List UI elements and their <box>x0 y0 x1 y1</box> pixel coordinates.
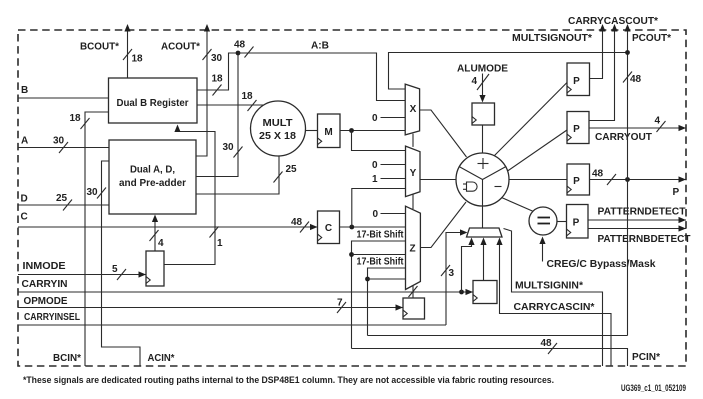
wire PCIN* input <box>352 349 628 367</box>
svg-text:D: D <box>21 194 28 205</box>
wire CARRYOUT out (4) <box>589 127 686 129</box>
register P multsign <box>567 63 590 96</box>
svg-text:A: A <box>21 136 28 147</box>
wire MULTSIGNIN* input <box>504 229 603 367</box>
svg-text:Dual A, D,: Dual A, D, <box>130 165 175 176</box>
register Dual B Register <box>109 78 198 123</box>
wire ALU to CARRYOUT register <box>508 130 568 171</box>
junction P direct tee <box>365 277 370 282</box>
svg-text:P: P <box>673 187 680 198</box>
register ALUMODE <box>472 103 495 125</box>
wire X mux select stub <box>412 134 414 147</box>
mux Z <box>406 206 421 289</box>
wire P shifted into Z mux <box>368 268 406 336</box>
register M <box>318 114 341 148</box>
plus sign <box>478 163 489 165</box>
svg-text:P: P <box>573 218 580 229</box>
wire ACIN* cascade input <box>102 161 141 366</box>
wire M output to Y mux <box>352 131 406 151</box>
wire CARRYCASCOUT* up <box>589 26 615 121</box>
svg-text:0: 0 <box>372 160 378 171</box>
minus sign <box>495 186 502 188</box>
register CARRYIN <box>473 281 497 304</box>
wire B register to multiplier (18) <box>197 104 264 106</box>
wire INMODE row <box>18 274 146 276</box>
wire CARRYIN direct to carry mux <box>462 240 472 292</box>
junction C output tee <box>349 225 354 230</box>
svg-text:30: 30 <box>223 142 235 153</box>
wire BCIN* cascade input <box>85 112 109 366</box>
svg-text:17-Bit Shift: 17-Bit Shift <box>357 230 405 241</box>
svg-text:48: 48 <box>541 338 553 349</box>
wire CARRYCASCIN* input <box>500 240 612 366</box>
wire P direct into Z mux <box>368 278 406 280</box>
wire PATTERNDETECT out <box>588 219 686 221</box>
wire OPMODE select into Z mux <box>412 286 414 299</box>
comparator pattern detect <box>502 198 534 212</box>
svg-text:48: 48 <box>630 74 642 85</box>
svg-text:3: 3 <box>449 268 455 279</box>
mux carry input select <box>467 228 503 237</box>
wire C to Y mux <box>352 189 405 228</box>
wire A:B bus to X mux <box>238 53 405 101</box>
svg-text:ACOUT*: ACOUT* <box>161 42 200 53</box>
svg-text:Z: Z <box>409 244 415 255</box>
register INMODE <box>146 251 164 286</box>
logic gate symbol <box>467 182 478 191</box>
junction CARRYIN tee <box>459 290 464 295</box>
wire ALUMODE register to ALU <box>482 125 484 153</box>
svg-text:17-Bit Shift: 17-Bit Shift <box>357 257 405 268</box>
svg-text:CARRYOUT: CARRYOUT <box>595 132 652 143</box>
svg-text:X: X <box>410 104 417 115</box>
svg-text:Dual B Register: Dual B Register <box>117 98 189 109</box>
wire C input row <box>18 226 318 228</box>
svg-text:18: 18 <box>212 74 224 85</box>
svg-text:P: P <box>573 124 580 135</box>
wire INMODE to B register (1) <box>164 128 215 265</box>
svg-text:OPMODE: OPMODE <box>24 296 68 307</box>
wire BCOUT* up <box>127 26 129 79</box>
wire pre-adder to multiplier (25) <box>196 156 279 194</box>
wire P output (48) <box>590 179 687 181</box>
svg-text:25 X 18: 25 X 18 <box>259 131 296 142</box>
svg-text:4: 4 <box>472 76 478 87</box>
junction PCIN direct tee <box>349 252 354 257</box>
svg-text:Y: Y <box>410 168 417 179</box>
svg-text:MULTSIGNOUT*: MULTSIGNOUT* <box>512 33 592 44</box>
svg-text:PATTERNDETECT: PATTERNDETECT <box>598 207 686 218</box>
register OPMODE <box>403 298 425 319</box>
wire CREG/C bypass mask input <box>542 240 544 262</box>
svg-text:25: 25 <box>56 193 68 204</box>
svg-text:BCOUT*: BCOUT* <box>80 42 119 53</box>
wire multiplier to M register <box>306 130 318 132</box>
mux Y <box>406 146 421 197</box>
svg-text:5: 5 <box>112 264 118 275</box>
wire X mux output to ALU <box>420 110 467 157</box>
mux X <box>405 84 419 135</box>
wire Y mux select stub <box>412 195 414 210</box>
wire PCIN shifted into Z mux <box>352 241 406 349</box>
svg-text:BCIN*: BCIN* <box>53 353 81 364</box>
svg-text:UG369_c1_01_052109: UG369_c1_01_052109 <box>621 383 686 393</box>
svg-text:P: P <box>573 76 580 87</box>
junction M output tee <box>349 128 354 133</box>
svg-text:25: 25 <box>286 164 298 175</box>
svg-text:30: 30 <box>211 53 223 64</box>
svg-text:A:B: A:B <box>311 41 329 52</box>
svg-text:30: 30 <box>87 187 99 198</box>
svg-text:ALUMODE: ALUMODE <box>457 64 508 75</box>
svg-text:MULTSIGNIN*: MULTSIGNIN* <box>515 281 583 292</box>
wire ALUMODE down to register <box>482 74 484 98</box>
wire PATTERNBDETECT out <box>588 228 686 230</box>
svg-text:PCOUT*: PCOUT* <box>632 33 671 44</box>
wire P feedback to X mux <box>389 53 629 90</box>
svg-text:4: 4 <box>158 238 164 249</box>
svg-text:18: 18 <box>242 91 254 102</box>
svg-text:48: 48 <box>234 40 246 51</box>
svg-text:0: 0 <box>373 209 379 220</box>
wire Z mux output to ALU <box>420 202 466 248</box>
wire CARRYINSEL select <box>446 233 461 326</box>
svg-text:18: 18 <box>132 54 144 65</box>
svg-text:PCIN*: PCIN* <box>632 352 660 363</box>
svg-text:MULT: MULT <box>263 118 293 129</box>
svg-text:C: C <box>21 212 28 223</box>
svg-text:CARRYCASCIN*: CARRYCASCIN* <box>514 302 595 313</box>
register P main <box>567 164 590 195</box>
wire C register output to Z mux <box>340 226 406 228</box>
wire ACOUT* up <box>196 26 207 157</box>
svg-text:30: 30 <box>53 136 65 147</box>
wire ALU to P register <box>509 179 567 181</box>
svg-text:0: 0 <box>372 113 378 124</box>
wire CARRYIN register to carry mux <box>483 240 485 281</box>
svg-text:B: B <box>21 85 28 96</box>
svg-text:M: M <box>324 127 332 138</box>
svg-text:1: 1 <box>217 238 223 249</box>
wire ALU to MULTSIGNOUT register <box>495 83 568 156</box>
wire CARRYIN row <box>18 291 473 293</box>
svg-text:ACIN*: ACIN* <box>148 353 175 364</box>
wire A input row <box>18 147 109 149</box>
register C <box>318 211 340 244</box>
junction P output tee <box>625 177 630 182</box>
wire B register to A:B bus (18) <box>197 53 238 90</box>
svg-text:P: P <box>573 176 580 187</box>
wire B input row <box>18 97 109 99</box>
wire D input row <box>18 204 109 206</box>
svg-text:PATTERNBDETECT: PATTERNBDETECT <box>598 234 691 245</box>
wire P feedback row to Z <box>368 335 628 337</box>
wire M register output to X mux <box>340 130 405 132</box>
wire A register to A:B bus (30) <box>196 53 238 177</box>
register P pattern <box>567 205 589 239</box>
wire INMODE to pre-adder (4) <box>154 219 156 252</box>
alu add/sub/logic circle <box>456 153 509 206</box>
multiplier MULT 25 X 18 <box>251 101 306 156</box>
wire MULTSIGNOUT* up <box>590 26 603 79</box>
svg-text:and Pre-adder: and Pre-adder <box>119 178 186 189</box>
svg-text:CARRYIN: CARRYIN <box>22 279 68 290</box>
svg-text:*These signals are dedicated r: *These signals are dedicated routing pat… <box>23 375 554 385</box>
svg-text:CREG/C Bypass/Mask: CREG/C Bypass/Mask <box>547 259 656 270</box>
wire Y mux output to ALU <box>420 179 456 181</box>
wire PCOUT* trunk <box>627 26 629 336</box>
svg-text:48: 48 <box>291 217 303 228</box>
svg-text:18: 18 <box>70 113 82 124</box>
svg-text:INMODE: INMODE <box>23 261 66 272</box>
svg-text:48: 48 <box>592 169 604 180</box>
svg-text:CARRYINSEL: CARRYINSEL <box>24 312 80 323</box>
wire PCIN direct into Z mux <box>352 254 406 256</box>
block Dual A, D, and Pre-adder <box>109 140 196 214</box>
wire CARRYINSEL row <box>18 324 446 326</box>
wire comparator to pattern register <box>557 221 567 223</box>
wire OPMODE row <box>18 307 403 309</box>
junction A:B <box>236 51 241 56</box>
register P carryout <box>567 112 589 144</box>
svg-text:C: C <box>325 223 332 234</box>
svg-text:1: 1 <box>372 174 378 185</box>
svg-text:4: 4 <box>655 116 661 127</box>
junction P feedback top <box>625 50 630 55</box>
svg-text:CARRYCASCOUT*: CARRYCASCOUT* <box>568 16 658 27</box>
